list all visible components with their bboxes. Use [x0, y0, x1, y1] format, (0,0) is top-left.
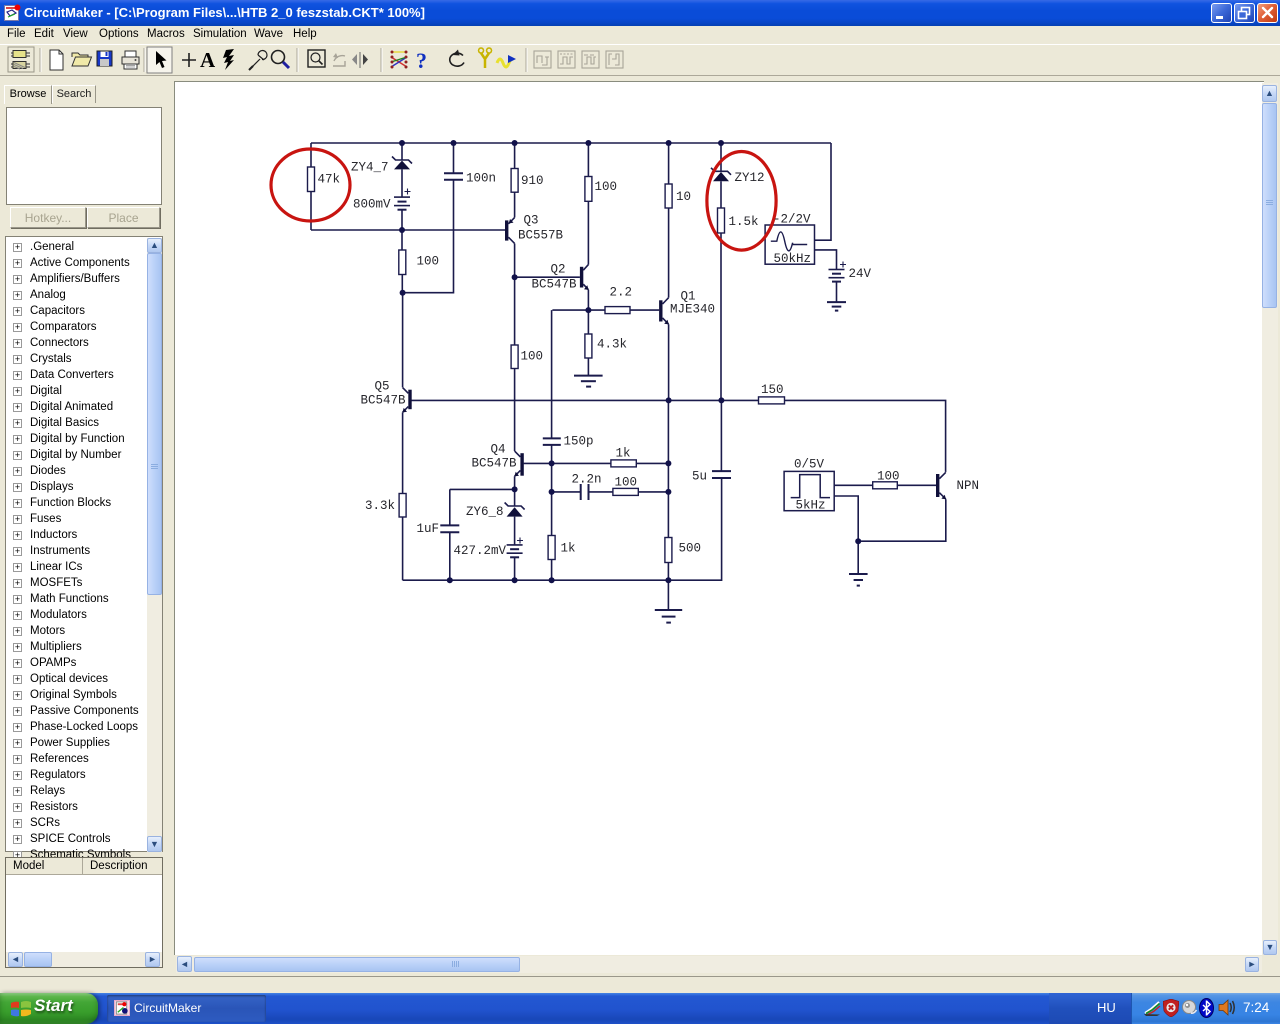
svg-text:Q2: Q2 — [551, 263, 566, 277]
wire source1 pins — [815, 250, 837, 302]
battery 427.2mV — [507, 538, 523, 558]
wires colorful — [391, 51, 408, 69]
wire Q2 base rail — [515, 276, 580, 278]
wave btn — [497, 55, 516, 67]
wire zener ZY4_7 column — [401, 143, 403, 230]
svg-text:Q1: Q1 — [681, 290, 696, 304]
wire 1uF column — [449, 489, 451, 580]
wire ZY6_8 stems — [514, 489, 516, 580]
svg-text:A: A — [200, 48, 216, 72]
svg-text:100: 100 — [417, 255, 440, 269]
model/description box — [5, 857, 163, 968]
wire Q5 emitter to 3.3k — [402, 412, 404, 493]
svg-text:47k: 47k — [318, 173, 341, 187]
resistor 100 npn — [873, 482, 898, 489]
left panel — [0, 76, 170, 968]
wire bottom rail y579 — [403, 478, 722, 580]
lightning — [223, 49, 234, 70]
svg-text:150p: 150p — [564, 435, 594, 449]
svg-text:3.3k: 3.3k — [365, 499, 395, 513]
zener ZY4_7 — [392, 157, 412, 170]
wire source2 pins — [834, 485, 873, 574]
svg-text:910: 910 — [521, 174, 544, 188]
capacitor 5u plates — [712, 471, 731, 478]
new — [50, 50, 63, 70]
ground under 4.3k — [574, 376, 603, 387]
capacitor 1uF plates — [440, 525, 459, 532]
wire Q2 emitter down — [587, 290, 589, 310]
rotate (gray) — [333, 53, 345, 66]
svg-text:Q5: Q5 — [375, 380, 390, 394]
svg-text:24V: 24V — [849, 267, 872, 281]
menu bar — [0, 26, 1280, 44]
svg-text:ZY12: ZY12 — [735, 171, 765, 185]
wire 10 column — [668, 143, 670, 298]
red ellipse highlight right (around ZY12) — [707, 152, 776, 251]
svg-text:5u: 5u — [692, 470, 707, 484]
svg-text:BC557B: BC557B — [518, 229, 564, 243]
wire column x667 down to 500 and ground — [667, 400, 669, 609]
svg-text:427.2mV: 427.2mV — [454, 544, 507, 558]
svg-text:5kHz: 5kHz — [796, 499, 826, 513]
sep — [296, 48, 298, 72]
sep — [143, 48, 145, 72]
capacitor 150p plates — [543, 438, 561, 445]
wire Q3 collector down — [514, 244, 516, 278]
wire Q4 base to junction — [524, 462, 552, 464]
svg-text:BC547B: BC547B — [361, 394, 407, 408]
transistor Q5 BC547B (NPN, mirrored) — [402, 388, 411, 413]
transistor Q4 BC547B (NPN, mirrored) — [514, 451, 523, 476]
wire mid rail y399 — [412, 400, 946, 472]
svg-text:10: 10 — [676, 190, 691, 204]
red ellipse highlight left (around 47k / ZY4_7) — [271, 149, 350, 221]
capacitor 100n plates — [444, 173, 463, 180]
transistor Q2 BC547B (NPN) — [580, 265, 589, 290]
svg-text:800mV: 800mV — [353, 198, 391, 212]
source 0/5V 5kHz box — [784, 471, 834, 510]
zener ZY12 — [711, 168, 731, 182]
sep — [380, 48, 382, 72]
capacitor 2.2n plates — [581, 484, 589, 500]
wire 4.3k column and ground stem — [587, 310, 589, 375]
wire column x513.6 Q2base to Q4 — [514, 277, 516, 489]
splitter — [352, 52, 368, 68]
wire ZY12/1.5k column — [720, 143, 722, 400]
wire row y309 to 2.2 and Q1 — [552, 309, 659, 311]
resistor 3.3k — [399, 494, 406, 518]
print — [122, 51, 139, 69]
resistor 1k horizontal — [611, 460, 636, 467]
ground under 0/5V source — [849, 574, 868, 586]
ground under 24V — [827, 302, 846, 311]
wire 100npn to base — [897, 484, 936, 486]
resistor 2.2 (horizontal) — [605, 307, 630, 314]
wire right drop to source pin — [815, 143, 832, 240]
wire 910 column — [514, 143, 516, 218]
wire Q1 emitter down — [668, 324, 670, 400]
wire left column 47k loop — [310, 143, 312, 230]
sep — [525, 48, 527, 72]
svg-text:500: 500 — [679, 542, 702, 556]
junction dots — [399, 140, 861, 583]
resistor 47k — [308, 167, 315, 192]
wrench Y — [479, 48, 492, 68]
wire rail y229 — [311, 229, 505, 231]
battery 24V — [829, 262, 847, 282]
toolbar — [0, 44, 1280, 76]
ground bottom center — [655, 610, 682, 623]
reset — [450, 50, 464, 67]
transistor Q1 MJE340 (NPN) — [659, 298, 669, 325]
wire 5u column top — [720, 400, 722, 471]
wire 100 column x587 — [587, 143, 589, 265]
main canvas — [174, 81, 1264, 955]
resistor 100 x401 — [399, 250, 406, 275]
wire top rail — [311, 142, 831, 144]
resistor 1k vertical — [548, 536, 555, 560]
sep — [39, 48, 41, 72]
canvas vertical scrollbar — [1262, 83, 1278, 955]
battery 800mV — [394, 189, 411, 210]
resistor 100 x587 — [585, 177, 592, 202]
canvas horizontal scrollbar — [176, 956, 1262, 973]
svg-text:ZY4_7: ZY4_7 — [351, 161, 389, 175]
browse button (framed) — [8, 47, 34, 72]
transistor NPN (right) — [936, 472, 946, 499]
wire row y488 to 1uF — [450, 488, 515, 490]
wire 100 column x401 — [401, 230, 404, 387]
resistor 910 — [511, 169, 518, 193]
svg-text:100: 100 — [595, 180, 618, 194]
wire column x550.6 down to 150p,1k — [551, 310, 553, 580]
wire 3.3k to bottom rail — [402, 517, 404, 580]
save — [97, 51, 112, 66]
resistor 10 — [665, 184, 672, 208]
resistor 4.3k — [585, 334, 592, 358]
transistor Q3 BC557B (PNP) — [505, 218, 515, 244]
zoom-in-box — [308, 50, 325, 67]
svg-text:BC547B: BC547B — [532, 278, 578, 292]
svg-text:100: 100 — [877, 470, 900, 484]
svg-text:?: ? — [416, 48, 427, 73]
svg-text:100: 100 — [615, 476, 638, 490]
wire NPN collector/emitter — [858, 472, 946, 541]
svg-text:2.2n: 2.2n — [572, 473, 602, 487]
svg-text:MJE340: MJE340 — [670, 303, 715, 317]
svg-text:150: 150 — [761, 383, 784, 397]
resistor 150 (horizontal) — [759, 397, 785, 404]
resistor 1.5k — [718, 208, 725, 233]
wire 100n column — [403, 143, 454, 293]
svg-text:NPN: NPN — [957, 479, 980, 493]
title bar — [0, 0, 1280, 26]
svg-text:BC547B: BC547B — [472, 457, 518, 471]
svg-text:50kHz: 50kHz — [774, 252, 812, 266]
svg-text:1.5k: 1.5k — [729, 215, 759, 229]
wire row y462 (1k) — [552, 462, 669, 464]
resistor 100 x513 — [511, 345, 518, 369]
svg-text:2.2: 2.2 — [610, 286, 633, 300]
plus — [182, 53, 196, 67]
wire row y491 (2.2n,100) — [552, 491, 669, 493]
svg-text:1uF: 1uF — [417, 522, 440, 536]
svg-text:100: 100 — [521, 350, 544, 364]
zener ZY6_8 — [505, 503, 525, 517]
labels — [318, 161, 980, 559]
svg-text:Q3: Q3 — [524, 214, 539, 228]
svg-text:4.3k: 4.3k — [597, 338, 627, 352]
resistor 500 — [665, 538, 672, 563]
open — [72, 53, 92, 66]
probe — [249, 51, 267, 70]
tree scrollbar — [147, 238, 162, 852]
taskbar — [0, 993, 1280, 1024]
4 gray instrument icons — [534, 51, 623, 68]
svg-text:Q4: Q4 — [491, 443, 506, 457]
resistor 100 horizontal row491 — [613, 488, 638, 495]
svg-text:1k: 1k — [561, 542, 576, 556]
svg-text:-2/2V: -2/2V — [773, 213, 811, 227]
arrow tool pressed — [147, 47, 172, 73]
svg-text:100n: 100n — [466, 172, 496, 186]
svg-text:1k: 1k — [616, 447, 631, 461]
svg-text:ZY6_8: ZY6_8 — [466, 505, 504, 519]
svg-text:0/5V: 0/5V — [794, 458, 825, 472]
zoom — [272, 51, 290, 69]
source -2/2V 50kHz box — [765, 225, 814, 264]
